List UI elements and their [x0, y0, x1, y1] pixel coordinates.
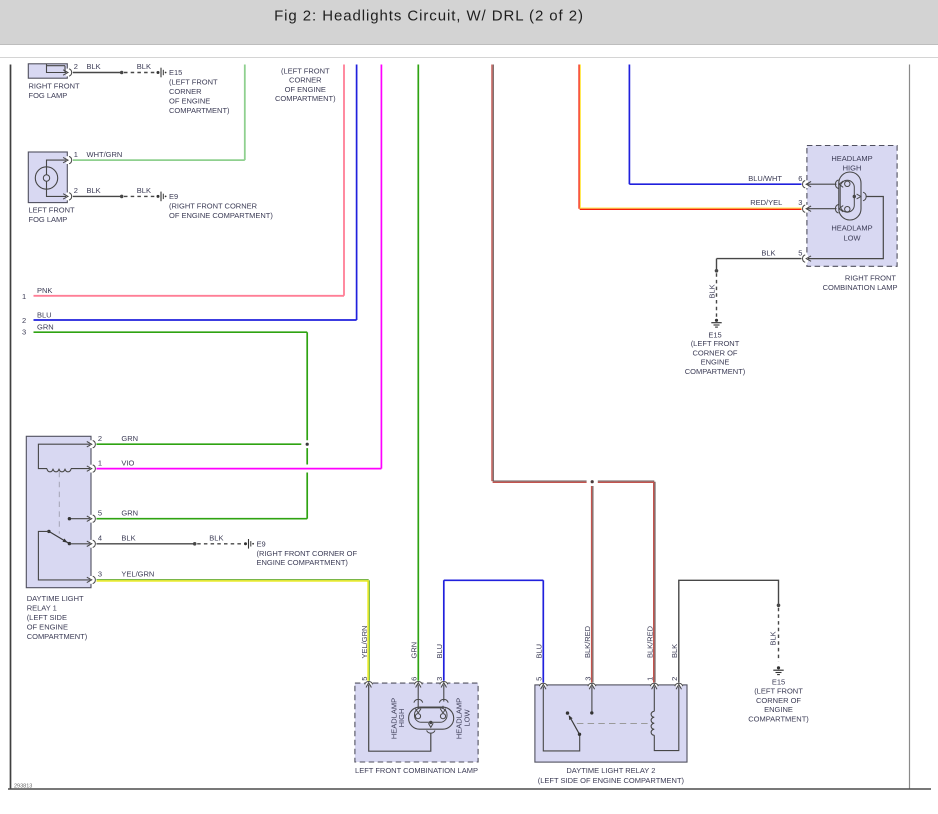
svg-text:OF ENGINE COMPARTMENT): OF ENGINE COMPARTMENT): [169, 211, 273, 220]
svg-text:LEFT FRONT COMBINATION LAMP: LEFT FRONT COMBINATION LAMP: [355, 766, 478, 775]
svg-text:HIGH: HIGH: [397, 709, 406, 728]
svg-text:WHT/GRN: WHT/GRN: [87, 150, 123, 159]
ground E15 (right): [777, 666, 780, 669]
lamp LEFT FRONT FOG LAMP: [28, 152, 67, 203]
svg-text:2: 2: [98, 434, 102, 443]
svg-text:BLK: BLK: [137, 62, 151, 71]
pin 3 RF combination lamp: [806, 205, 808, 213]
svg-text:BLK/RED: BLK/RED: [646, 625, 655, 658]
svg-text:4: 4: [98, 534, 102, 543]
svg-text:BLU/WHT: BLU/WHT: [748, 174, 782, 183]
svg-text:6: 6: [410, 677, 419, 681]
wire BLK/RED to relay2 pin3: [591, 486, 593, 683]
pin 3 LF combination lamp: [440, 682, 448, 684]
bulb dual filament left: [409, 707, 454, 729]
pin 5 RF combination lamp: [806, 255, 808, 263]
svg-text:COMPARTMENT): COMPARTMENT): [685, 367, 746, 376]
title bar: [0, 0, 938, 44]
relay DAYTIME LIGHT RELAY 1: [26, 436, 91, 587]
wire GRN relay1 pin2: [97, 443, 302, 445]
svg-text:OF ENGINE: OF ENGINE: [169, 97, 210, 106]
svg-text:LEFT FRONT: LEFT FRONT: [29, 205, 76, 214]
svg-text:1: 1: [646, 677, 655, 681]
svg-text:5: 5: [98, 509, 102, 518]
svg-text:ENGINE: ENGINE: [701, 358, 730, 367]
ground eyelet E15 (top left): [157, 71, 160, 74]
pin 1 LEFT FRONT FOG LAMP: [66, 156, 68, 164]
svg-text:(LEFT SIDE: (LEFT SIDE: [27, 613, 67, 622]
svg-text:COMPARTMENT): COMPARTMENT): [275, 94, 336, 103]
wire BLK RF fog lamp to E15: [73, 72, 120, 74]
svg-text:5: 5: [535, 677, 544, 681]
pin 5 LF combination lamp: [365, 682, 373, 684]
svg-text:1: 1: [98, 458, 102, 467]
svg-text:(RIGHT FRONT CORNER: (RIGHT FRONT CORNER: [169, 201, 258, 210]
svg-text:CORNER: CORNER: [289, 76, 322, 85]
svg-text:BLK: BLK: [768, 631, 777, 645]
svg-text:DAYTIME LIGHT RELAY 2: DAYTIME LIGHT RELAY 2: [566, 766, 655, 775]
svg-text:(LEFT FRONT: (LEFT FRONT: [754, 687, 803, 696]
svg-text:HIGH: HIGH: [843, 164, 862, 173]
svg-text:BLK: BLK: [137, 186, 151, 195]
svg-text:E9: E9: [169, 192, 178, 201]
svg-text:YEL/GRN: YEL/GRN: [360, 626, 369, 659]
pin 1 relay 2: [650, 684, 658, 686]
svg-text:E15: E15: [772, 678, 785, 687]
ground eyelet E9 (left): [157, 195, 160, 198]
svg-text:RED/YEL: RED/YEL: [750, 198, 782, 207]
svg-text:RELAY 1: RELAY 1: [27, 603, 57, 612]
wire BLK LF fog lamp to E9: [73, 195, 120, 197]
svg-text:2: 2: [670, 677, 679, 681]
svg-text:E15: E15: [169, 68, 182, 77]
svg-text:(LEFT FRONT: (LEFT FRONT: [691, 339, 740, 348]
wire BLK relay1 pin4 to E9: [97, 543, 194, 545]
wire BLU/WHT: [628, 65, 630, 185]
svg-text:COMPARTMENT): COMPARTMENT): [27, 632, 88, 641]
wire GRN left: [34, 331, 308, 333]
svg-text:BLU: BLU: [435, 644, 444, 659]
relay DAYTIME LIGHT RELAY 2: [535, 685, 687, 762]
svg-text:E15: E15: [708, 330, 721, 339]
wire BLU bridge: [443, 580, 445, 681]
svg-text:OF ENGINE: OF ENGINE: [285, 85, 326, 94]
svg-text:3: 3: [98, 570, 102, 579]
svg-text:RIGHT FRONT: RIGHT FRONT: [29, 82, 81, 91]
wire GRN relay1 pin5: [97, 518, 308, 520]
pin 4 relay 1: [90, 540, 92, 548]
svg-text:3: 3: [798, 198, 802, 207]
svg-text:(LEFT FRONT: (LEFT FRONT: [281, 66, 330, 75]
svg-text:GRN: GRN: [121, 509, 138, 518]
svg-text:3: 3: [22, 328, 26, 337]
svg-text:2: 2: [74, 186, 78, 195]
pin 3 relay 1: [90, 576, 92, 584]
ground E15 (middle): [715, 319, 718, 322]
svg-text:3: 3: [583, 677, 592, 681]
svg-text:BLK: BLK: [209, 534, 223, 543]
svg-text:DAYTIME LIGHT: DAYTIME LIGHT: [27, 594, 84, 603]
svg-text:COMPARTMENT): COMPARTMENT): [748, 714, 809, 723]
svg-text:BLU: BLU: [535, 644, 544, 659]
svg-text:BLK/RED: BLK/RED: [583, 625, 592, 658]
pin 2 LEFT FRONT FOG LAMP: [66, 193, 68, 201]
junction GRN: [306, 443, 309, 446]
lamp RIGHT FRONT FOG LAMP (partial): [28, 64, 67, 78]
svg-text:YEL/GRN: YEL/GRN: [121, 570, 154, 579]
wire BLK/RED to relay2 pin1: [653, 482, 655, 683]
svg-text:5: 5: [360, 677, 369, 681]
svg-text:3: 3: [435, 677, 444, 681]
pin 5 relay 2: [539, 684, 547, 686]
svg-text:(LEFT SIDE OF ENGINE COMPARTME: (LEFT SIDE OF ENGINE COMPARTMENT): [538, 776, 685, 785]
pin 2 relay 2: [675, 684, 683, 686]
svg-text:BLK: BLK: [87, 62, 101, 71]
svg-text:1: 1: [74, 150, 78, 159]
pin 5 relay 1: [90, 515, 92, 523]
svg-text:Fig 2: Headlights Circuit, W/: Fig 2: Headlights Circuit, W/ DRL (2 of …: [274, 8, 584, 25]
svg-text:OF ENGINE: OF ENGINE: [27, 622, 68, 631]
relay 2 switch: [569, 716, 579, 734]
svg-text:PNK: PNK: [37, 286, 52, 295]
lamp RIGHT FRONT COMBINATION LAMP: [807, 146, 897, 267]
svg-text:RIGHT FRONT: RIGHT FRONT: [845, 273, 897, 282]
wire BLU: [34, 319, 357, 321]
svg-text:BLK: BLK: [761, 249, 775, 258]
svg-text:FOG LAMP: FOG LAMP: [29, 91, 68, 100]
junction BLK/RED: [591, 480, 594, 483]
pin 6 LF combination lamp: [414, 682, 422, 684]
svg-text:(RIGHT FRONT CORNER OF: (RIGHT FRONT CORNER OF: [257, 549, 358, 558]
svg-text:GRN: GRN: [410, 642, 419, 659]
svg-text:HEADLAMP: HEADLAMP: [831, 154, 872, 163]
pin 3 relay 2: [588, 684, 596, 686]
svg-text:LOW: LOW: [462, 709, 471, 727]
wire PNK: [34, 295, 345, 297]
wire WHT/GRN: [73, 159, 245, 161]
wire VIO: [97, 468, 382, 470]
svg-text:CORNER OF: CORNER OF: [693, 348, 738, 357]
relay 1 coil: [47, 469, 71, 472]
relay 1 switch: [69, 518, 91, 520]
svg-text:CORNER: CORNER: [169, 87, 202, 96]
pin 2 RIGHT FRONT FOG LAMP: [66, 69, 68, 77]
svg-text:BLK: BLK: [670, 644, 679, 658]
svg-text:VIO: VIO: [121, 458, 134, 467]
svg-text:BLK: BLK: [121, 534, 135, 543]
svg-text:2: 2: [74, 62, 78, 71]
svg-text:6: 6: [798, 174, 802, 183]
svg-text:BLK: BLK: [708, 284, 717, 298]
svg-text:GRN: GRN: [121, 434, 138, 443]
svg-text:HEADLAMP: HEADLAMP: [831, 224, 872, 233]
lamp LEFT FRONT COMBINATION LAMP: [355, 683, 478, 762]
svg-text:COMPARTMENT): COMPARTMENT): [169, 106, 230, 115]
relay 2 coil: [653, 686, 655, 712]
svg-text:1: 1: [22, 292, 26, 301]
bulb dual filament right: [839, 172, 861, 220]
svg-text:BLK: BLK: [87, 186, 101, 195]
svg-text:GRN: GRN: [37, 323, 54, 332]
pin 6 RF combination lamp: [806, 180, 808, 188]
svg-text:(LEFT FRONT: (LEFT FRONT: [169, 77, 218, 86]
svg-text:BLU: BLU: [37, 311, 52, 320]
svg-text:FOG LAMP: FOG LAMP: [29, 215, 68, 224]
svg-text:LOW: LOW: [843, 234, 861, 243]
svg-text:2: 2: [22, 316, 26, 325]
wire BLK relay2 pin2 to E15: [679, 580, 779, 682]
svg-text:5: 5: [798, 249, 802, 258]
svg-text:293813: 293813: [14, 783, 32, 789]
svg-text:E9: E9: [257, 540, 266, 549]
wire GRN trunk to LF lamp: [417, 65, 419, 681]
wire YEL/GRN: [97, 580, 369, 582]
svg-text:CORNER OF: CORNER OF: [756, 696, 801, 705]
pin 2 relay 1: [90, 440, 92, 448]
pin 1 relay 1: [90, 465, 92, 473]
svg-text:COMBINATION LAMP: COMBINATION LAMP: [823, 283, 898, 292]
ground eyelet E9 (relay 1): [244, 542, 247, 545]
svg-text:ENGINE: ENGINE: [764, 705, 793, 714]
wire BLK/RED trunk: [491, 65, 493, 482]
svg-text:ENGINE COMPARTMENT): ENGINE COMPARTMENT): [257, 558, 349, 567]
wire RED/YEL: [578, 65, 580, 209]
frame: [0, 57, 938, 59]
